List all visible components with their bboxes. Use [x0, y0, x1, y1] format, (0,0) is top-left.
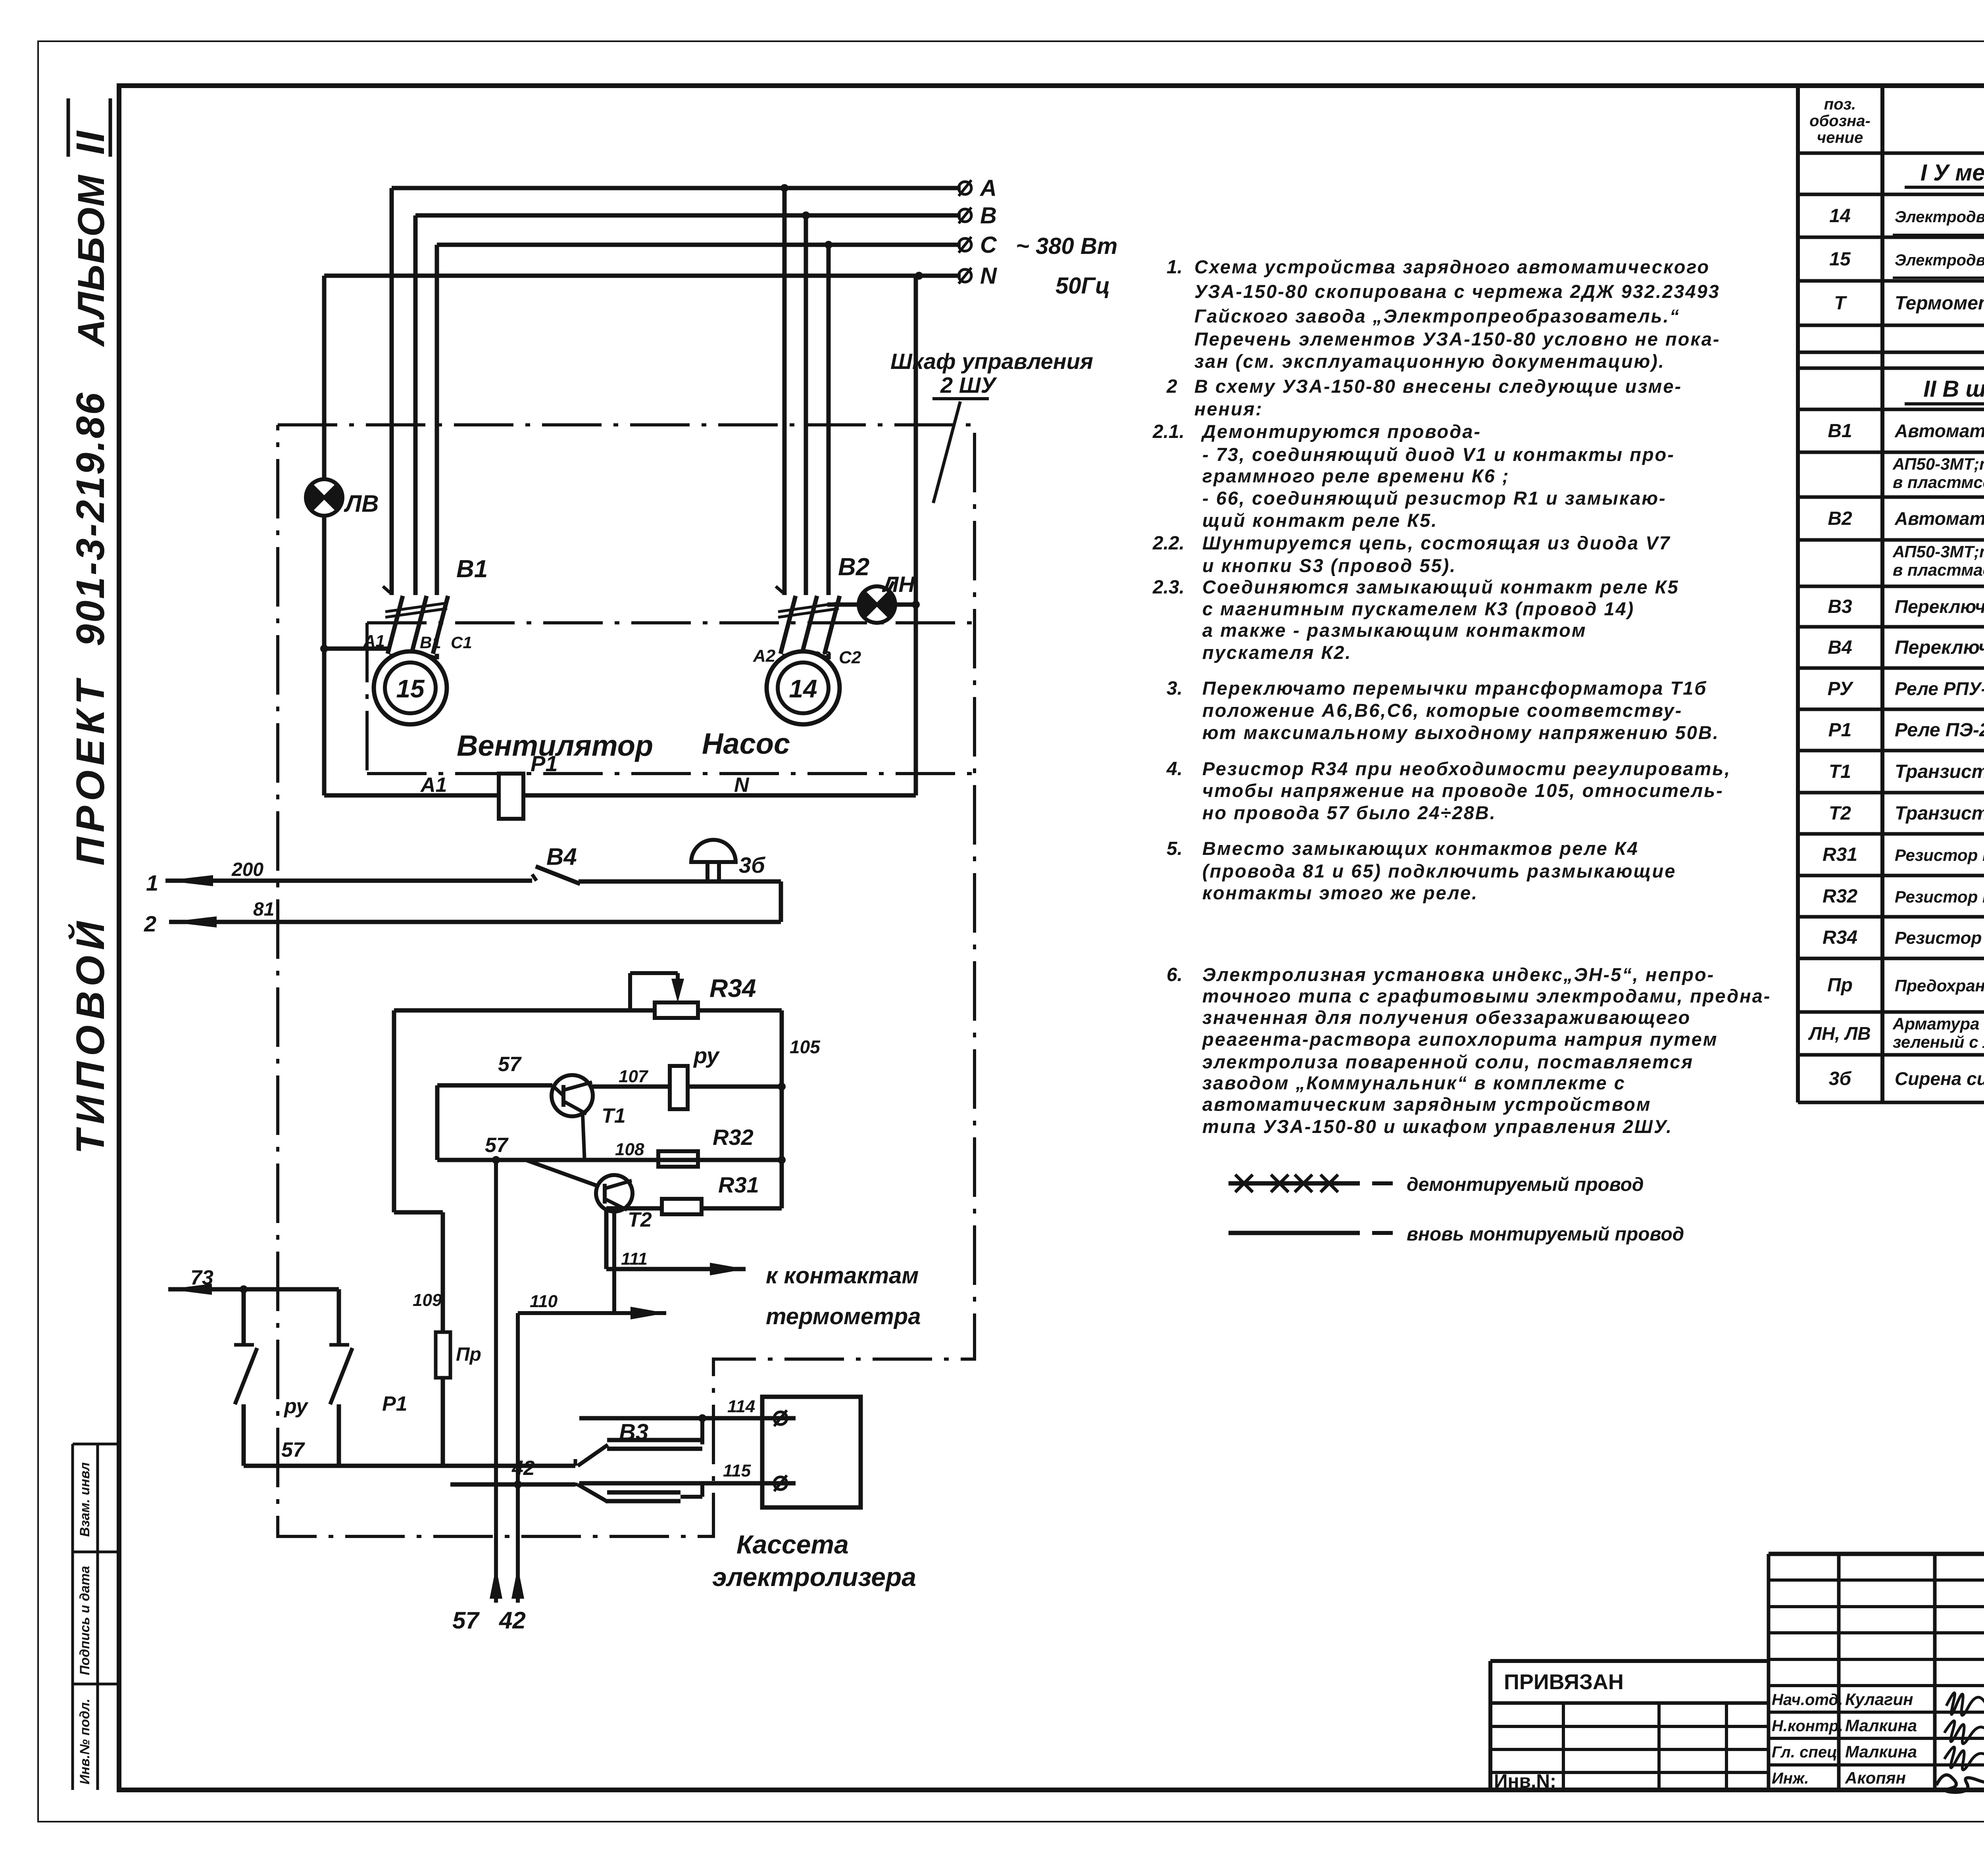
svg-text:В2: В2: [838, 553, 869, 581]
svg-text:вновь монтируемый провод: вновь монтируемый провод: [1407, 1224, 1684, 1245]
svg-text:Термометр ТПК-4П-В3 ГОСТ 9871-: Термометр ТПК-4П-В3 ГОСТ 9871-75: [1895, 293, 1984, 314]
svg-text:R32: R32: [1823, 886, 1857, 907]
svg-text:2: 2: [144, 911, 156, 936]
svg-text:В4: В4: [1828, 637, 1852, 658]
svg-text:I У механизма: I У механизма: [1921, 160, 1984, 186]
svg-text:Автоматический выключатель: Автоматический выключатель: [1894, 421, 1984, 441]
svg-text:42: 42: [499, 1607, 526, 1634]
svg-text:С: С: [980, 232, 997, 258]
svg-text:термометра: термометра: [766, 1304, 921, 1329]
svg-text:N: N: [980, 263, 997, 289]
svg-text:с магнитным пускателем К3 (пр: с магнитным пускателем К3 (провод 14): [1202, 598, 1634, 619]
svg-text:2.2.: 2.2.: [1152, 533, 1184, 554]
svg-text:ПРОЕКТ: ПРОЕКТ: [68, 676, 113, 866]
svg-text:ЛН, ЛВ: ЛН, ЛВ: [1808, 1023, 1871, 1044]
svg-text:в пластмссовом кожухе: в пластмссовом кожухе: [1893, 473, 1984, 492]
svg-text:R34: R34: [1823, 927, 1857, 948]
svg-text:Нач.отд.: Нач.отд.: [1772, 1691, 1843, 1709]
svg-text:к контактам: к контактам: [766, 1263, 919, 1288]
svg-text:Малкина: Малкина: [1845, 1742, 1917, 1761]
svg-text:Транзистор П-217,Сиз.363.017Т: Транзистор П-217,Сиз.363.017ТУ: [1895, 761, 1984, 782]
svg-text:Автоматический выключатель: Автоматический выключатель: [1894, 508, 1984, 529]
svg-text:II: II: [68, 129, 113, 155]
svg-text:15: 15: [1829, 249, 1851, 270]
svg-text:Т2: Т2: [628, 1208, 652, 1231]
svg-text:R31: R31: [1823, 844, 1857, 865]
svg-text:R31: R31: [718, 1172, 759, 1197]
svg-text:поз.: поз.: [1824, 96, 1856, 113]
svg-text:N: N: [734, 774, 750, 797]
svg-text:чение: чение: [1817, 129, 1863, 146]
svg-text:ЛВ: ЛВ: [344, 490, 379, 517]
svg-text:в пластмассовом кожухе: в пластмассовом кожухе: [1893, 561, 1984, 579]
svg-text:3б: 3б: [1829, 1068, 1852, 1089]
svg-text:и кнопки S3 (провод 55).: и кнопки S3 (провод 55).: [1202, 555, 1456, 576]
svg-text:81: 81: [253, 899, 274, 920]
svg-text:В1: В1: [420, 633, 441, 652]
svg-text:Т1: Т1: [1829, 761, 1851, 782]
svg-text:Инж.: Инж.: [1772, 1770, 1809, 1787]
svg-text:Предохранитель-ПТ;Упл.бст=0,5А: Предохранитель-ПТ;Упл.бст=0,5А;ТУ-24В-63: [1895, 976, 1984, 995]
svg-text:УЗА-150-80 скопирована с че: УЗА-150-80 скопирована с чертежа 2ДЖ 932…: [1194, 281, 1720, 302]
svg-text:ПРИВЯЗАН: ПРИВЯЗАН: [1504, 1670, 1624, 1694]
svg-text:Пр: Пр: [1827, 975, 1853, 996]
svg-text:Электродвигатель АОЛ22-2;Р=0,6: Электродвигатель АОЛ22-2;Р=0,6кВт;п=2800…: [1895, 252, 1984, 269]
svg-text:57: 57: [452, 1607, 480, 1634]
svg-text:Реле РПУ-1-315,248ТУ16.523.020: Реле РПУ-1-315,248ТУ16.523.020-70: [1895, 678, 1984, 699]
svg-text:АЛЬБОМ: АЛЬБОМ: [70, 175, 112, 347]
svg-text:электролизера: электролизера: [712, 1562, 916, 1592]
svg-text:Взам. инвл: Взам. инвл: [77, 1462, 92, 1537]
svg-text:Кассета: Кассета: [736, 1530, 849, 1559]
svg-text:Шкаф управления: Шкаф управления: [890, 349, 1093, 374]
svg-text:Инв.N:: Инв.N:: [1494, 1771, 1556, 1792]
svg-text:Резистор ПЭВР-10-100±5% ГОСТ 6: Резистор ПЭВР-10-100±5% ГОСТ 6513-66: [1895, 928, 1984, 948]
svg-text:С1: С1: [451, 633, 472, 652]
svg-text:Гайского завода „Электропрео: Гайского завода „Электропреобразователь.…: [1194, 305, 1680, 326]
svg-text:Т2: Т2: [1829, 803, 1851, 824]
svg-text:С2: С2: [839, 648, 861, 667]
svg-text:Перечень элементов УЗА-150-80: Перечень элементов УЗА-150-80 условно не…: [1194, 328, 1721, 349]
svg-text:57: 57: [498, 1053, 522, 1076]
svg-text:Шунтируется цепь, состоящая: Шунтируется цепь, состоящая из диода V7: [1202, 532, 1671, 553]
svg-text:В2: В2: [1828, 508, 1852, 529]
svg-text:контакты этого же реле.: контакты этого же реле.: [1202, 882, 1478, 903]
svg-text:Демонтируются провода-: Демонтируются провода-: [1201, 421, 1481, 442]
svg-text:Реле ПЭ-20 на 220 В: Реле ПЭ-20 на 220 В: [1895, 720, 1984, 741]
svg-text:~ 380 Вт: ~ 380 Вт: [1016, 233, 1117, 259]
svg-text:1.: 1.: [1167, 257, 1182, 278]
svg-text:В4: В4: [546, 843, 577, 870]
svg-text:Гл. спец.: Гл. спец.: [1772, 1744, 1842, 1761]
svg-text:пускателя К2.: пускателя К2.: [1202, 642, 1352, 663]
svg-text:ТИПОВОЙ: ТИПОВОЙ: [67, 916, 113, 1154]
svg-text:Арматура сигнальная АС-2,цвет: Арматура сигнальная АС-2,цвет плафона: [1892, 1014, 1984, 1033]
svg-text:Переключато перемычки трансф: Переключато перемычки трансформатора Т1б: [1202, 678, 1707, 699]
svg-text:114: 114: [727, 1397, 755, 1416]
svg-text:Резистор R34 при необходимос: Резистор R34 при необходимости регулиров…: [1202, 758, 1731, 779]
svg-text:АП50-3МТ;трехполюсный~Т; Укр=6: АП50-3МТ;трехполюсный~Т; Укр=6,4А: [1892, 542, 1984, 561]
svg-text:4.: 4.: [1166, 758, 1182, 780]
svg-text:Переключатель П622-Пб ГОСТ2327: Переключатель П622-Пб ГОСТ2327-70: [1895, 596, 1984, 617]
svg-text:зан (см. эксплуатационную док: зан (см. эксплуатационную документацию).: [1194, 351, 1665, 372]
svg-text:2.3.: 2.3.: [1152, 577, 1184, 598]
svg-text:Н.контр.: Н.контр.: [1772, 1717, 1843, 1735]
svg-text:200: 200: [231, 859, 263, 880]
svg-text:Электролизная установка инде: Электролизная установка индекс„ЭН-5“, не…: [1202, 964, 1715, 985]
svg-text:но провода 57 было 24÷28В.: но провода 57 было 24÷28В.: [1202, 802, 1496, 823]
svg-text:5.: 5.: [1167, 838, 1182, 859]
svg-text:Схема устройства зарядного: Схема устройства зарядного автоматическо…: [1194, 256, 1710, 277]
svg-text:Пр: Пр: [456, 1344, 481, 1365]
svg-text:ют максимальному выходному: ют максимальному выходному напряжению 50…: [1202, 722, 1719, 743]
svg-text:а также - размыкающим конта: а также - размыкающим контактом: [1202, 620, 1587, 641]
svg-text:демонтируемый провод: демонтируемый провод: [1407, 1174, 1644, 1195]
svg-text:реагента-раствора гипохлорита: реагента-раствора гипохлорита натрия пут…: [1202, 1029, 1718, 1050]
svg-text:Вместо замыкающих контактов: Вместо замыкающих контактов реле К4: [1202, 838, 1639, 859]
svg-text:заводом „Коммунальник“ в ком: заводом „Коммунальник“ в комплекте с: [1202, 1072, 1626, 1093]
svg-text:граммного реле времени К6 ;: граммного реле времени К6 ;: [1202, 465, 1510, 486]
svg-text:- 73, соединяющий диод V1 и: - 73, соединяющий диод V1 и контакты про…: [1202, 444, 1675, 465]
svg-text:зеленый с лампой ПШ-220-15: зеленый с лампой ПШ-220-15: [1893, 1033, 1984, 1051]
svg-text:Т1: Т1: [602, 1104, 626, 1127]
svg-text:В1: В1: [456, 555, 488, 583]
svg-text:щий контакт реле К5.: щий контакт реле К5.: [1202, 510, 1438, 531]
svg-text:точного типа с графитовыми эл: точного типа с графитовыми электродами, …: [1202, 985, 1771, 1006]
svg-text:положение А6,В6,С6, которые: положение А6,В6,С6, которые соответству-: [1202, 700, 1682, 721]
svg-text:6.: 6.: [1167, 964, 1182, 985]
svg-text:109: 109: [413, 1290, 442, 1310]
svg-text:ру: ру: [283, 1395, 309, 1418]
svg-text:типа УЗА-150-80 и шкафом уп: типа УЗА-150-80 и шкафом управления 2ШУ.: [1202, 1116, 1673, 1137]
svg-text:Электродвигатель АО2-31-2;Р=3к: Электродвигатель АО2-31-2;Р=3кВт;п=2900 …: [1895, 208, 1984, 226]
svg-text:Переключатель ТВ2-1НЦ03606ТУ: Переключатель ТВ2-1НЦ03606ТУ: [1895, 637, 1984, 658]
svg-text:107: 107: [619, 1067, 649, 1086]
svg-text:А: А: [979, 175, 997, 201]
svg-text:Соединяются замыкающий конта: Соединяются замыкающий контакт реле К5: [1202, 576, 1679, 597]
svg-text:Р1: Р1: [382, 1392, 408, 1415]
svg-text:3.: 3.: [1167, 678, 1182, 699]
svg-text:ЛН: ЛН: [882, 572, 915, 597]
svg-text:R32: R32: [713, 1125, 754, 1150]
svg-text:А2: А2: [753, 646, 776, 666]
svg-text:- 66, соединяющий резистор R1: - 66, соединяющий резистор R1 и замыкаю-: [1202, 488, 1667, 509]
svg-text:57: 57: [281, 1438, 305, 1461]
svg-text:Т: Т: [1834, 293, 1847, 314]
svg-text:108: 108: [615, 1140, 644, 1159]
svg-text:14: 14: [1829, 205, 1850, 227]
svg-text:110: 110: [530, 1292, 558, 1311]
svg-text:Акопян: Акопян: [1845, 1768, 1906, 1787]
svg-text:Насос: Насос: [702, 727, 790, 760]
svg-text:1: 1: [146, 870, 158, 895]
svg-text:электролиза поваренной соли,: электролиза поваренной соли, поставляетс…: [1202, 1051, 1694, 1072]
svg-text:обозна-: обозна-: [1809, 112, 1871, 130]
svg-text:15: 15: [396, 674, 425, 703]
svg-text:В3: В3: [1828, 596, 1852, 617]
svg-text:Малкина: Малкина: [1845, 1716, 1917, 1735]
svg-text:ру: ру: [693, 1043, 720, 1068]
svg-text:нения:: нения:: [1194, 398, 1263, 419]
svg-text:Инв.№ подл.: Инв.№ подл.: [77, 1699, 92, 1785]
svg-text:РУ: РУ: [1828, 678, 1854, 699]
svg-text:В: В: [980, 203, 997, 228]
svg-text:57: 57: [485, 1134, 509, 1157]
svg-text:В схему УЗА-150-80 внесены: В схему УЗА-150-80 внесены следующие изм…: [1194, 376, 1682, 397]
svg-text:Р1: Р1: [531, 751, 558, 776]
svg-text:АП50-3МТ;трехполюсный~Т; Укр=1: АП50-3МТ;трехполюсный~Т; Укр=1,6А: [1892, 455, 1984, 473]
svg-text:Транзистор МП-42.ГОСТ 14947-6: Транзистор МП-42.ГОСТ 14947-69: [1895, 803, 1984, 824]
svg-text:Подпись и дата: Подпись и дата: [77, 1566, 92, 1675]
svg-text:14: 14: [789, 674, 817, 703]
svg-text:901-3-219.86: 901-3-219.86: [68, 391, 113, 646]
svg-text:Резистор МЛТ-0,5-5,6кОм±10% ГО: Резистор МЛТ-0,5-5,6кОм±10% ГОСТ 7113-66: [1895, 846, 1984, 864]
svg-text:R34: R34: [709, 974, 756, 1002]
svg-text:50Гц: 50Гц: [1055, 273, 1110, 299]
svg-text:Р1: Р1: [1828, 720, 1852, 741]
svg-text:111: 111: [621, 1249, 648, 1269]
svg-text:В1: В1: [1828, 421, 1852, 442]
svg-text:Кулагин: Кулагин: [1845, 1690, 1913, 1709]
svg-text:42: 42: [511, 1457, 535, 1480]
svg-text:значенная для получения обе: значенная для получения обеззараживающег…: [1202, 1007, 1691, 1028]
svg-text:115: 115: [723, 1461, 751, 1480]
svg-text:2 ШУ: 2 ШУ: [940, 373, 998, 397]
svg-text:105: 105: [790, 1037, 821, 1057]
svg-text:II В шкафу управления 2ШУ: II В шкафу управления 2ШУ: [1923, 376, 1984, 402]
svg-text:2: 2: [1166, 376, 1177, 397]
svg-text:Сирена сигнальная СС-1,220В,но: Сирена сигнальная СС-1,220В,норм.исп.: [1895, 1068, 1984, 1089]
svg-text:А1: А1: [420, 774, 447, 797]
svg-text:автоматическим зарядным уст: автоматическим зарядным устройством: [1202, 1094, 1651, 1115]
svg-text:3б: 3б: [739, 853, 765, 878]
svg-text:(провода 81 и 65) подключить: (провода 81 и 65) подключить размыкающие: [1202, 860, 1676, 881]
svg-text:Резистор МЛТ-0,5-10кОм±10% ГОС: Резистор МЛТ-0,5-10кОм±10% ГОСТ 7113-66: [1895, 887, 1984, 906]
svg-text:2.1.: 2.1.: [1152, 421, 1184, 442]
svg-text:чтобы напряжение на проводе: чтобы напряжение на проводе 105, относит…: [1202, 780, 1724, 801]
